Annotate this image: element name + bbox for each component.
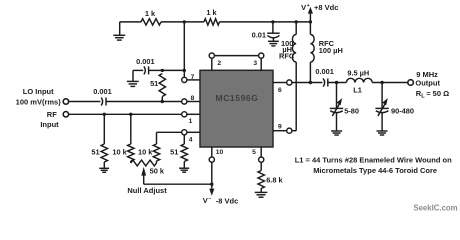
node junction (RF 10k tap) — [129, 113, 132, 116]
wire (cap to L1) — [328, 82, 347, 84]
svg-text:8: 8 — [191, 95, 195, 102]
ground (under 0.01 cap) — [268, 41, 279, 46]
node junction (90-480 trimmer tap) — [380, 81, 383, 84]
wire (RF to pin 1) — [69, 113, 182, 115]
svg-text:5: 5 — [252, 149, 256, 156]
resistor 51 (RF termination) — [101, 114, 107, 168]
svg-text:100 mV(rms): 100 mV(rms) — [16, 98, 62, 107]
node junction (RFC1 tap) — [295, 20, 298, 23]
pin 2 stub — [211, 58, 213, 70]
label V- -8 Vdc — [203, 196, 239, 205]
wire (pin 9 to RFC1) — [292, 130, 296, 132]
resistor 51 (pin 4 to ground) — [181, 135, 187, 168]
node junction (RFC2 bottom) — [309, 81, 312, 84]
wire (pin 4 to right 10k) — [157, 131, 182, 133]
svg-text:51: 51 — [170, 148, 178, 157]
svg-text:-8 Vdc: -8 Vdc — [216, 196, 239, 205]
ground (pin 7 bypass) — [127, 81, 139, 86]
inductor L1 9.5 uH — [346, 78, 372, 82]
pin 8 stub — [187, 101, 200, 103]
svg-text:+: + — [307, 3, 310, 9]
trimmer capacitor 90-480 — [375, 83, 388, 132]
resistor 1 k (left bias) — [141, 19, 161, 25]
node junction (V+ entry) — [309, 20, 312, 23]
svg-text:L1: L1 — [353, 85, 362, 94]
wire (top rail between 1k resistors) — [161, 21, 204, 23]
svg-text:Micrometals Type 44-6 Toroid C: Micrometals Type 44-6 Toroid Core — [313, 166, 437, 175]
svg-text:V: V — [203, 196, 208, 205]
wire (top rail right segment) — [220, 21, 311, 23]
wire (L1 to output) — [372, 82, 407, 84]
svg-text:90-480: 90-480 — [391, 106, 414, 115]
svg-text:LO Input: LO Input — [23, 87, 54, 96]
svg-text:1 k: 1 k — [145, 9, 156, 18]
pin 4 terminal circle — [182, 130, 187, 135]
pin 3 stub — [260, 58, 262, 70]
pin 6 terminal circle — [287, 80, 292, 85]
inductor RFC2 100 uH (to pin 6) — [310, 22, 314, 83]
svg-text:50 k: 50 k — [150, 167, 165, 176]
label LO Input / 100 mV(rms) — [16, 87, 62, 106]
pin 7 terminal circle — [182, 77, 187, 82]
pin 2 terminal circle — [209, 53, 214, 58]
wire (LO to coupling cap) — [69, 101, 101, 103]
capacitor 0.001 (pin 7 bypass) — [133, 66, 162, 81]
svg-text:6.8 k: 6.8 k — [266, 176, 283, 185]
terminal LO input — [63, 99, 68, 104]
svg-text:10: 10 — [216, 149, 224, 156]
op-amp U1 MC1596G body — [200, 70, 273, 147]
capacitor 0.001 (LO coupling) — [101, 98, 106, 106]
ground (pin 4 51) — [179, 168, 189, 172]
svg-text:6: 6 — [278, 87, 282, 94]
ground (top-left, 1k bias return) — [113, 22, 125, 40]
node junction (0.01 bypass tap) — [271, 20, 274, 23]
wire (bias node horizontal) — [162, 69, 184, 71]
svg-text:10 k: 10 k — [112, 148, 127, 157]
capacitor 0.001 (output coupling) — [323, 78, 328, 86]
label 9 MHz Output RL = 50 ohm — [415, 70, 449, 100]
resistor 10 k (left null) — [128, 114, 134, 163]
node junction (RF 51 tap) — [103, 113, 106, 116]
terminal RF input — [63, 112, 68, 117]
svg-text:7: 7 — [191, 74, 195, 81]
pin 9 stub — [273, 130, 287, 132]
pin 3 terminal circle — [259, 53, 264, 58]
pin 10 stub — [211, 147, 213, 157]
svg-text:100 µH: 100 µH — [319, 46, 343, 55]
pin 4 stub — [187, 131, 200, 133]
svg-text:0.001: 0.001 — [93, 87, 112, 96]
wire (pin 6 to coupling cap) — [292, 82, 323, 84]
node junction (5-80 trimmer tap) — [335, 81, 338, 84]
node junction (rail to pin 7 branch) — [183, 20, 186, 23]
resistor 1 k (right bias) — [204, 19, 219, 25]
resistor 6.8 k (pin 5 bias) — [258, 162, 264, 193]
resistor 10 k (right null) — [153, 132, 159, 163]
svg-text:RF: RF — [47, 110, 57, 119]
svg-text:2: 2 — [217, 60, 221, 67]
svg-text:51: 51 — [150, 79, 158, 88]
label V+ +8 Vdc — [301, 3, 338, 12]
pin 8 terminal circle — [182, 99, 187, 104]
node junction (pin 7 bias node) — [183, 69, 186, 72]
node junction (null line joins V- line) — [210, 183, 213, 186]
svg-text:1: 1 — [189, 118, 193, 125]
svg-text:L: L — [421, 94, 425, 100]
wire (gain link pin 2 to pin 3) — [214, 55, 258, 57]
svg-text:9: 9 — [278, 124, 282, 131]
ground (6.8 k) — [255, 192, 268, 197]
node junction (51 bottom on LO line) — [161, 100, 164, 103]
svg-text:4: 4 — [189, 137, 193, 144]
wiper arrow (50 k pot) — [141, 167, 146, 184]
svg-text:5-80: 5-80 — [344, 107, 359, 116]
svg-text:MC1596G: MC1596G — [216, 93, 259, 103]
svg-text:0.01: 0.01 — [252, 31, 266, 40]
svg-text:L1 = 44 Turns #28 Enameled Wir: L1 = 44 Turns #28 Enameled Wire Wound on — [295, 155, 452, 164]
inductor RFC1 100 uH (to pin 9) — [292, 22, 296, 131]
svg-text:Output: Output — [415, 79, 440, 88]
svg-text:10 k: 10 k — [138, 148, 153, 157]
wire (pin 10 down) — [211, 162, 213, 188]
pin 1 stub — [187, 113, 200, 115]
trimmer capacitor 5-80 — [330, 83, 343, 132]
svg-text:9.5 µH: 9.5 µH — [347, 69, 369, 78]
svg-text:V: V — [301, 3, 306, 12]
label RF Input — [40, 110, 59, 129]
pin 7 stub — [187, 79, 200, 81]
wire (top rail left segment) — [120, 21, 141, 23]
pin 5 terminal circle — [259, 157, 264, 162]
svg-text:Null Adjust: Null Adjust — [127, 186, 167, 195]
pin 9 terminal circle — [287, 128, 292, 133]
capacitor 0.01 (V+ bypass) — [267, 22, 280, 41]
V- supply arrow -8 Vdc — [209, 189, 214, 196]
ground (90-480) — [377, 131, 388, 135]
svg-text:SeekIC.com: SeekIC.com — [413, 203, 457, 212]
svg-text:−: − — [208, 196, 211, 202]
ground (5-80) — [331, 131, 342, 135]
svg-text:Input: Input — [40, 120, 59, 129]
resistor 51 (pin 7 to LO line) — [159, 74, 165, 102]
svg-text:0.001: 0.001 — [136, 57, 155, 66]
pin 10 terminal circle — [209, 157, 214, 162]
node junction (51 top) — [161, 69, 164, 72]
pin 6 stub — [273, 82, 287, 84]
svg-text:+8 Vdc: +8 Vdc — [314, 3, 338, 12]
value label 100 uH RFC (left choke) — [279, 39, 295, 61]
svg-text:51: 51 — [91, 148, 99, 157]
svg-text:RFC: RFC — [279, 51, 295, 60]
svg-text:0.001: 0.001 — [315, 67, 334, 76]
V+ supply arrow +8 Vdc — [308, 7, 313, 22]
wire (null adjust to V- line) — [144, 183, 212, 185]
terminal 9 MHz output — [408, 80, 414, 86]
svg-text:1 k: 1 k — [206, 8, 217, 17]
pin 5 stub — [260, 147, 262, 157]
wire (rail drop to pin 7 node) — [183, 22, 185, 77]
svg-text:= 50 Ω: = 50 Ω — [426, 89, 449, 98]
potentiometer 50 k (null adjust) — [131, 160, 157, 166]
wire (cap to pin 8) — [106, 101, 182, 103]
ground (RF 51) — [99, 168, 109, 172]
svg-text:3: 3 — [253, 60, 257, 67]
pin 1 terminal circle — [182, 112, 187, 117]
value label RFC 100 uH (right choke) — [319, 39, 343, 55]
